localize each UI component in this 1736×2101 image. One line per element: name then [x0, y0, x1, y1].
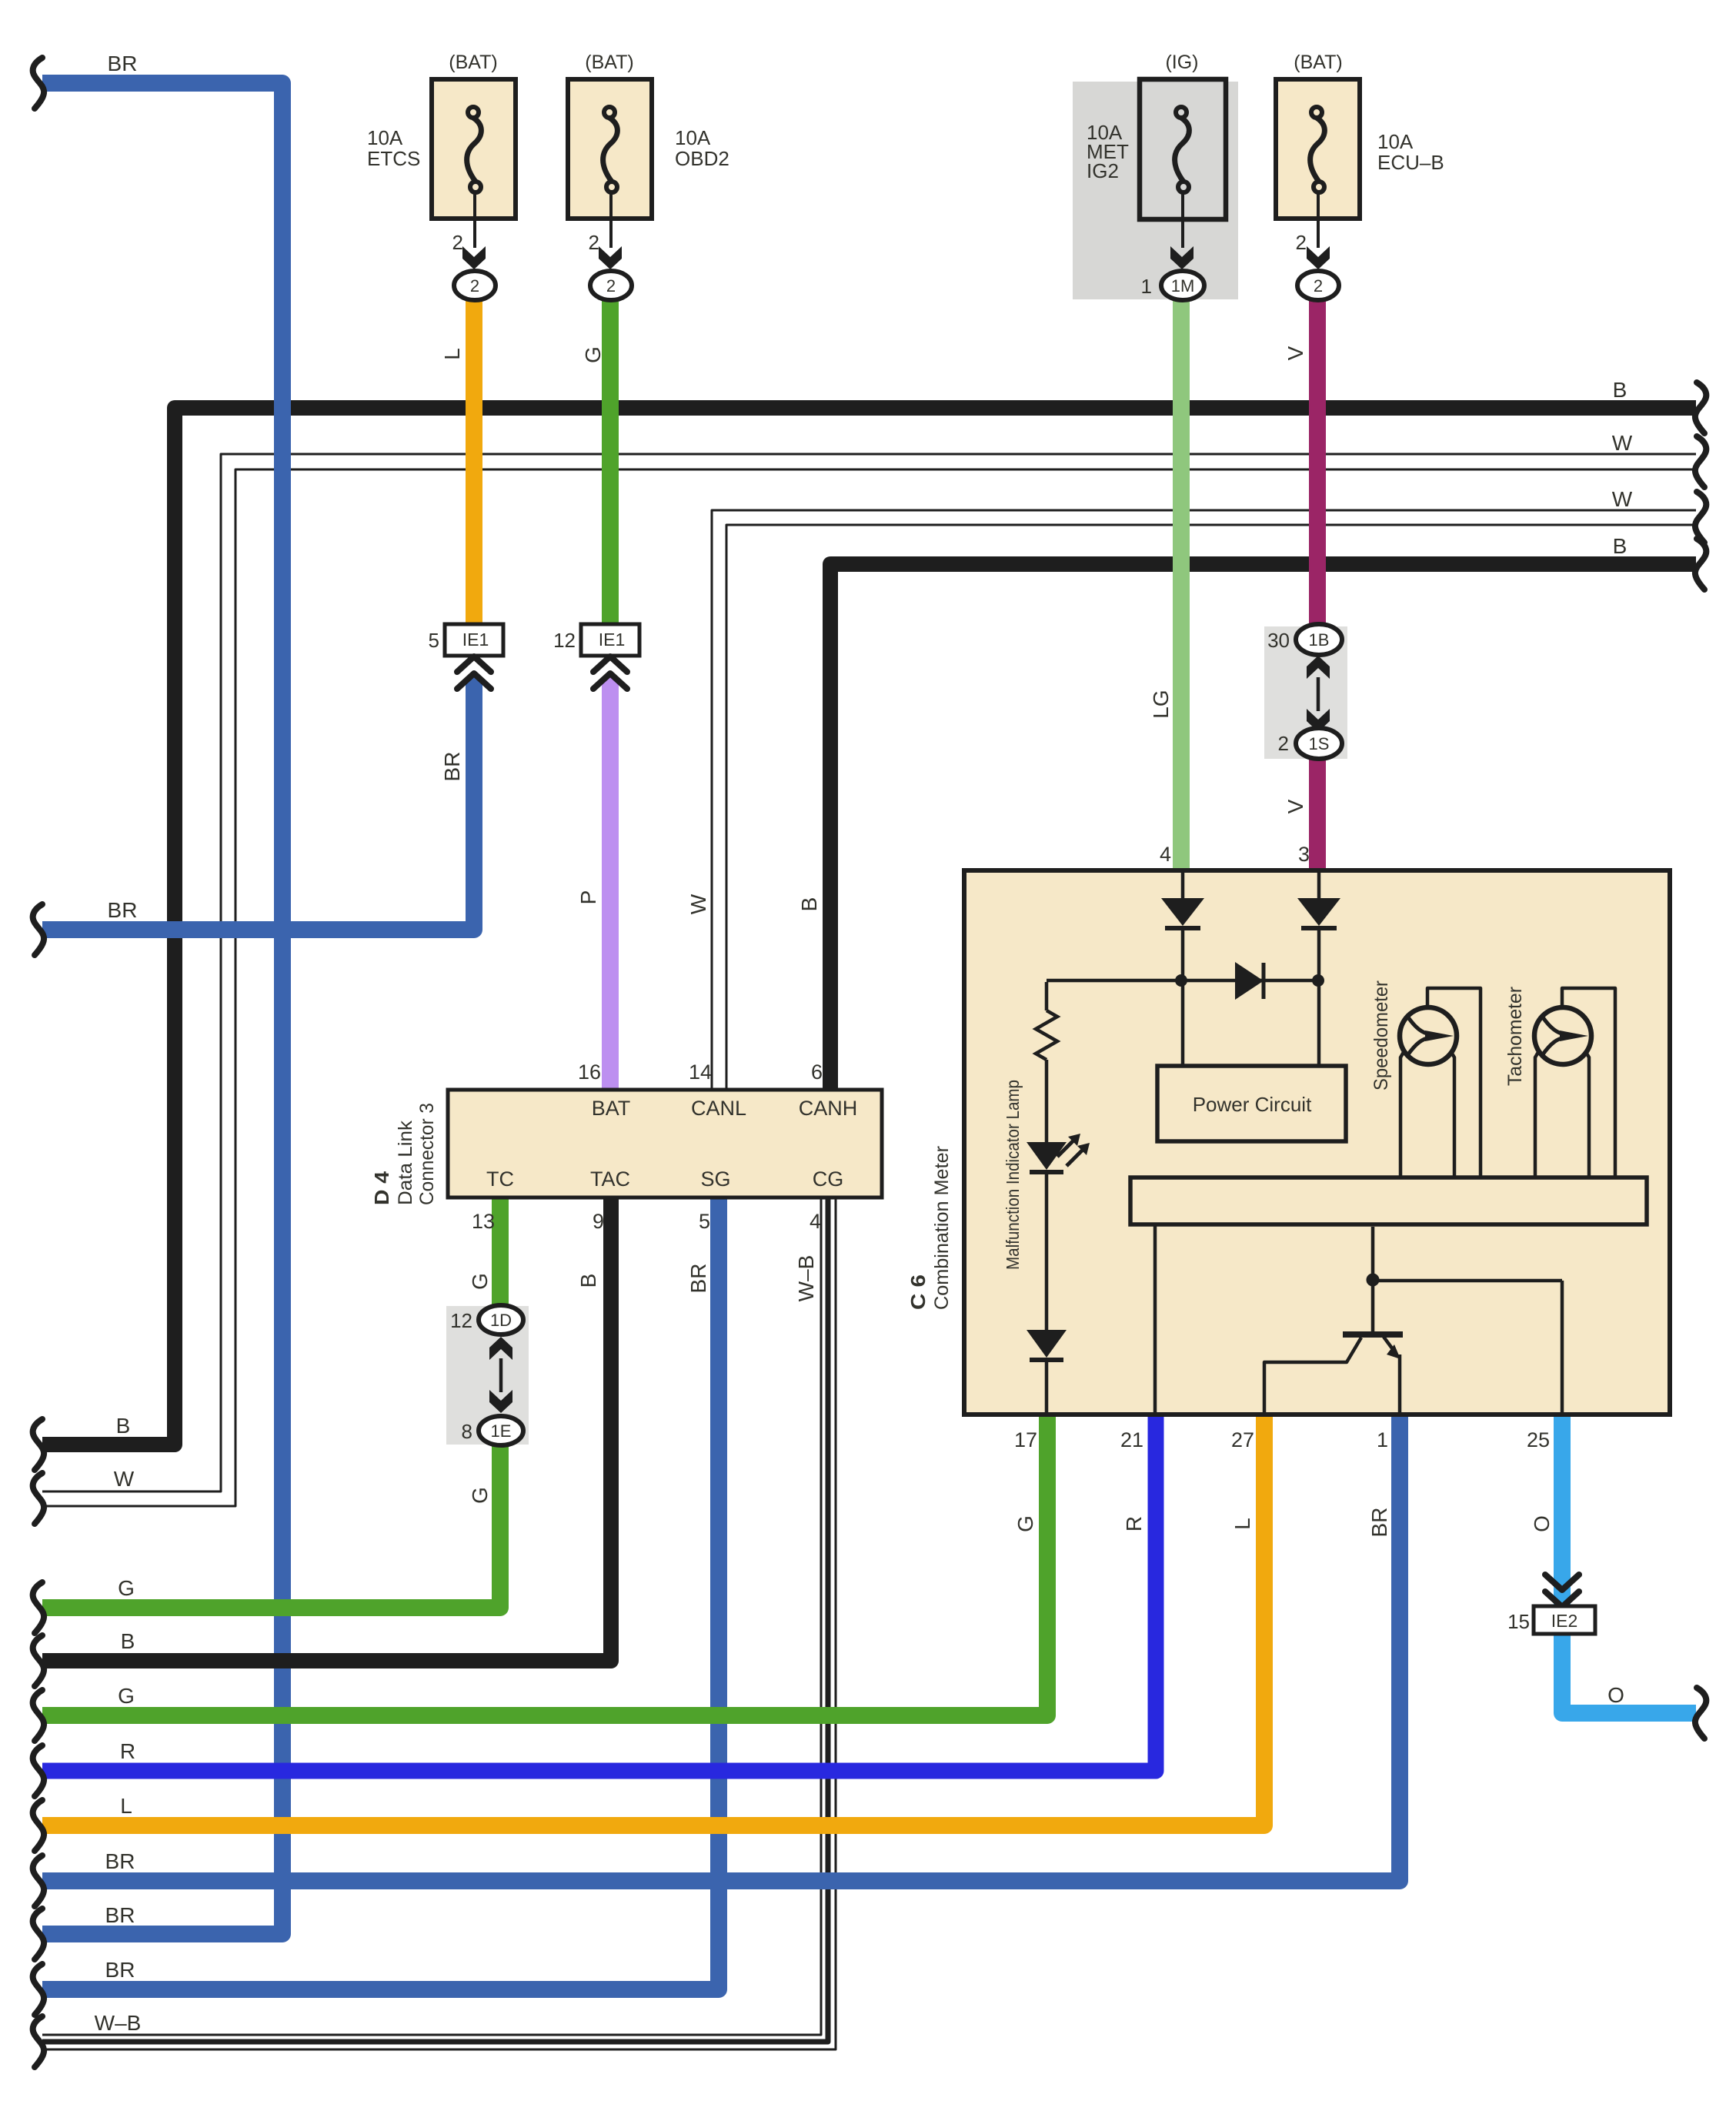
svg-text:LG: LG	[1149, 690, 1173, 718]
svg-text:13: 13	[472, 1210, 495, 1233]
svg-text:L: L	[440, 348, 464, 360]
svg-text:CG: CG	[813, 1167, 844, 1191]
svg-text:V: V	[1284, 346, 1307, 360]
svg-text:W: W	[1612, 487, 1633, 511]
svg-text:BR: BR	[108, 52, 138, 75]
svg-text:G: G	[118, 1576, 135, 1600]
svg-text:B: B	[576, 1274, 600, 1288]
svg-text:G: G	[468, 1487, 492, 1504]
svg-text:1E: 1E	[491, 1421, 512, 1441]
svg-text:10A: 10A	[367, 126, 403, 149]
svg-text:L: L	[120, 1794, 132, 1818]
svg-text:Combination Meter: Combination Meter	[931, 1146, 953, 1310]
svg-text:1S: 1S	[1309, 734, 1330, 753]
svg-text:TC: TC	[486, 1167, 514, 1191]
svg-text:21: 21	[1120, 1428, 1143, 1451]
svg-text:BR: BR	[105, 1849, 135, 1873]
svg-text:16: 16	[578, 1061, 601, 1084]
svg-text:6: 6	[811, 1061, 823, 1084]
svg-text:8: 8	[462, 1420, 472, 1443]
svg-text:V: V	[1284, 799, 1307, 813]
svg-text:BR: BR	[686, 1264, 710, 1294]
svg-text:12: 12	[553, 629, 576, 652]
svg-text:W: W	[686, 894, 710, 914]
svg-text:2: 2	[1296, 231, 1307, 254]
svg-text:P: P	[576, 890, 600, 905]
svg-text:15: 15	[1507, 1610, 1530, 1633]
svg-text:10A: 10A	[1377, 130, 1414, 153]
svg-text:D 4: D 4	[370, 1171, 393, 1205]
svg-text:(BAT): (BAT)	[585, 52, 633, 73]
svg-text:W–B: W–B	[794, 1255, 818, 1302]
svg-text:5: 5	[699, 1210, 710, 1233]
svg-text:O: O	[1607, 1683, 1624, 1707]
svg-text:B: B	[1613, 534, 1627, 558]
svg-text:2: 2	[606, 276, 616, 296]
svg-text:B: B	[1613, 378, 1627, 402]
svg-text:R: R	[1122, 1516, 1146, 1531]
svg-text:G: G	[468, 1273, 492, 1290]
svg-text:Power Circuit: Power Circuit	[1193, 1093, 1312, 1116]
svg-text:25: 25	[1527, 1428, 1550, 1451]
svg-text:BAT: BAT	[592, 1097, 631, 1120]
svg-text:CANL: CANL	[691, 1097, 746, 1120]
svg-text:IE2: IE2	[1551, 1611, 1578, 1631]
svg-text:5: 5	[429, 629, 439, 652]
svg-text:2: 2	[1278, 732, 1289, 755]
svg-text:O: O	[1530, 1515, 1554, 1532]
svg-text:1M: 1M	[1171, 276, 1195, 296]
svg-text:BR: BR	[108, 898, 138, 922]
svg-text:12: 12	[450, 1309, 472, 1332]
svg-text:4: 4	[1160, 843, 1171, 866]
svg-text:(BAT): (BAT)	[449, 52, 497, 73]
svg-text:ECU–B: ECU–B	[1377, 151, 1444, 174]
svg-text:IE1: IE1	[599, 630, 626, 650]
svg-text:BR: BR	[105, 1903, 135, 1927]
svg-text:Connector 3: Connector 3	[416, 1103, 438, 1205]
svg-text:G: G	[581, 346, 605, 363]
svg-text:4: 4	[810, 1210, 821, 1233]
svg-text:BR: BR	[440, 752, 464, 782]
svg-text:27: 27	[1231, 1428, 1254, 1451]
svg-text:B: B	[116, 1414, 131, 1438]
svg-text:OBD2: OBD2	[675, 147, 729, 170]
svg-text:ETCS: ETCS	[367, 147, 420, 170]
svg-text:Tachometer: Tachometer	[1504, 987, 1526, 1086]
svg-text:G: G	[1013, 1515, 1037, 1532]
svg-text:30: 30	[1267, 629, 1290, 652]
svg-text:17: 17	[1014, 1428, 1037, 1451]
svg-text:10A: 10A	[675, 126, 711, 149]
svg-text:14: 14	[689, 1061, 712, 1084]
svg-text:2: 2	[589, 231, 599, 254]
svg-text:L: L	[1230, 1518, 1254, 1530]
svg-text:TAC: TAC	[590, 1167, 630, 1191]
svg-text:IG2: IG2	[1087, 159, 1119, 182]
svg-text:9: 9	[593, 1210, 604, 1233]
svg-text:W–B: W–B	[95, 2011, 142, 2035]
svg-text:1: 1	[1141, 275, 1152, 298]
svg-text:W: W	[1612, 431, 1633, 455]
svg-text:W: W	[114, 1467, 135, 1491]
svg-text:Speedometer: Speedometer	[1370, 980, 1392, 1091]
svg-text:SG: SG	[700, 1167, 730, 1191]
svg-text:1B: 1B	[1309, 630, 1330, 650]
svg-text:2: 2	[1314, 276, 1323, 296]
svg-text:3: 3	[1298, 843, 1310, 866]
svg-text:B: B	[121, 1629, 135, 1653]
svg-text:IE1: IE1	[462, 630, 489, 650]
svg-text:1: 1	[1377, 1428, 1388, 1451]
svg-text:(IG): (IG)	[1165, 52, 1198, 73]
svg-text:Data Link: Data Link	[395, 1120, 416, 1205]
svg-text:(BAT): (BAT)	[1294, 52, 1342, 73]
svg-text:BR: BR	[105, 1958, 135, 1982]
svg-text:1D: 1D	[490, 1311, 512, 1330]
svg-text:G: G	[118, 1684, 135, 1708]
svg-text:B: B	[797, 897, 821, 912]
svg-text:R: R	[120, 1739, 135, 1763]
svg-text:Malfunction Indicator Lamp: Malfunction Indicator Lamp	[1003, 1080, 1023, 1270]
svg-text:C 6: C 6	[906, 1274, 930, 1310]
svg-text:CANH: CANH	[799, 1097, 858, 1120]
svg-text:2: 2	[452, 231, 463, 254]
svg-text:2: 2	[470, 276, 479, 296]
svg-text:BR: BR	[1367, 1508, 1391, 1538]
